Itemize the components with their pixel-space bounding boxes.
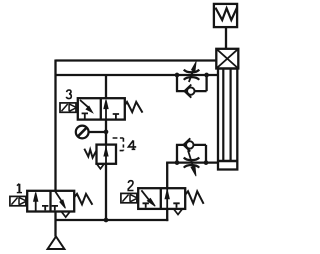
- load weight box with spring: [214, 4, 237, 27]
- wire second line to upper flow control and cylinder top port: [56, 74, 219, 76]
- brake crossed box on rod: [216, 49, 238, 69]
- cylinder piston rod double line: [223, 69, 230, 161]
- node junction dot upper loop left: [175, 73, 180, 78]
- valve V2 right box blocked port T: [173, 203, 179, 208]
- wire top supply line to brake: [56, 59, 217, 61]
- regulator 4 exhaust triangle: [97, 164, 104, 169]
- regulator 4 flow arrow: [104, 145, 108, 164]
- check valve lower seat and ball: [183, 138, 193, 151]
- valve V2 solenoid: [121, 193, 138, 202]
- valve V1 return spring: [74, 194, 92, 205]
- valve V2 left box blocked port T: [143, 203, 149, 208]
- valve V2 right box flow arrow: [165, 188, 169, 209]
- node junction dot upper loop right: [204, 73, 209, 78]
- cylinder piston: [218, 160, 237, 162]
- label 2: [128, 181, 133, 191]
- valve V3 right box blocked port T: [113, 114, 119, 119]
- wire regulator outlet down to supply line: [105, 164, 107, 220]
- wire valve3 outlet down to gauge junction and regulator: [105, 120, 107, 145]
- valve V2 exhaust triangle: [174, 209, 182, 214]
- regulator 4 spring: [84, 149, 96, 158]
- throttle valve upper adjust arrow: [189, 62, 196, 83]
- wire lower flow control main line: [166, 161, 218, 163]
- check valve upper seat and ball: [184, 85, 194, 98]
- wire bottom supply line: [56, 219, 169, 221]
- valve V1 exhaust triangle: [62, 212, 70, 217]
- wire valve3 feed from second line: [105, 75, 107, 98]
- node junction dot supply line: [104, 218, 109, 223]
- wire valve2 through riser: [166, 163, 168, 222]
- pneumatic source triangle: [48, 237, 65, 250]
- throttle valve upper arcs: [184, 70, 199, 80]
- wire upper check bypass loop: [176, 75, 207, 91]
- regulator 4 pilot dashed line: [113, 138, 124, 151]
- valve V2 body: [138, 188, 185, 209]
- pressure regulator 4 body: [97, 145, 117, 164]
- valve V1 left box blocked port T: [42, 206, 48, 211]
- node junction dot lower loop left: [175, 160, 180, 165]
- wire left bus vertical: [54, 60, 56, 191]
- valve V1 solenoid: [10, 196, 27, 205]
- wire lower check bypass loop: [176, 145, 206, 163]
- wire rod to load: [225, 27, 227, 49]
- valve V1 body: [27, 191, 74, 212]
- valve V2 left box arrow: [141, 190, 155, 206]
- valve V3 body: [78, 98, 125, 119]
- cylinder barrel: [218, 69, 237, 170]
- node junction dot lower loop right: [204, 160, 209, 165]
- valve V3 left box blocked port T: [82, 113, 88, 118]
- pressure gauge: [76, 126, 89, 139]
- valve V3 left box arrow: [80, 100, 93, 113]
- valve V1 left box flow arrow: [34, 192, 38, 211]
- throttle valve lower arcs: [184, 158, 199, 168]
- valve V3 return spring: [125, 102, 143, 113]
- label 3: [66, 90, 71, 99]
- label 4: [128, 140, 136, 149]
- throttle valve lower adjust arrow: [188, 150, 196, 176]
- valve V3 right box flow arrow: [104, 100, 108, 120]
- label 1: [17, 184, 22, 193]
- node junction dot gauge line: [104, 130, 109, 135]
- valve V1 right box arrow to exhaust: [55, 192, 65, 209]
- valve V1 right box blocked port T: [52, 206, 58, 211]
- valve V2 return spring: [185, 191, 203, 204]
- wire gauge link: [88, 131, 106, 133]
- wire valve1 riser to source: [54, 211, 56, 236]
- valve V3 solenoid: [60, 103, 77, 112]
